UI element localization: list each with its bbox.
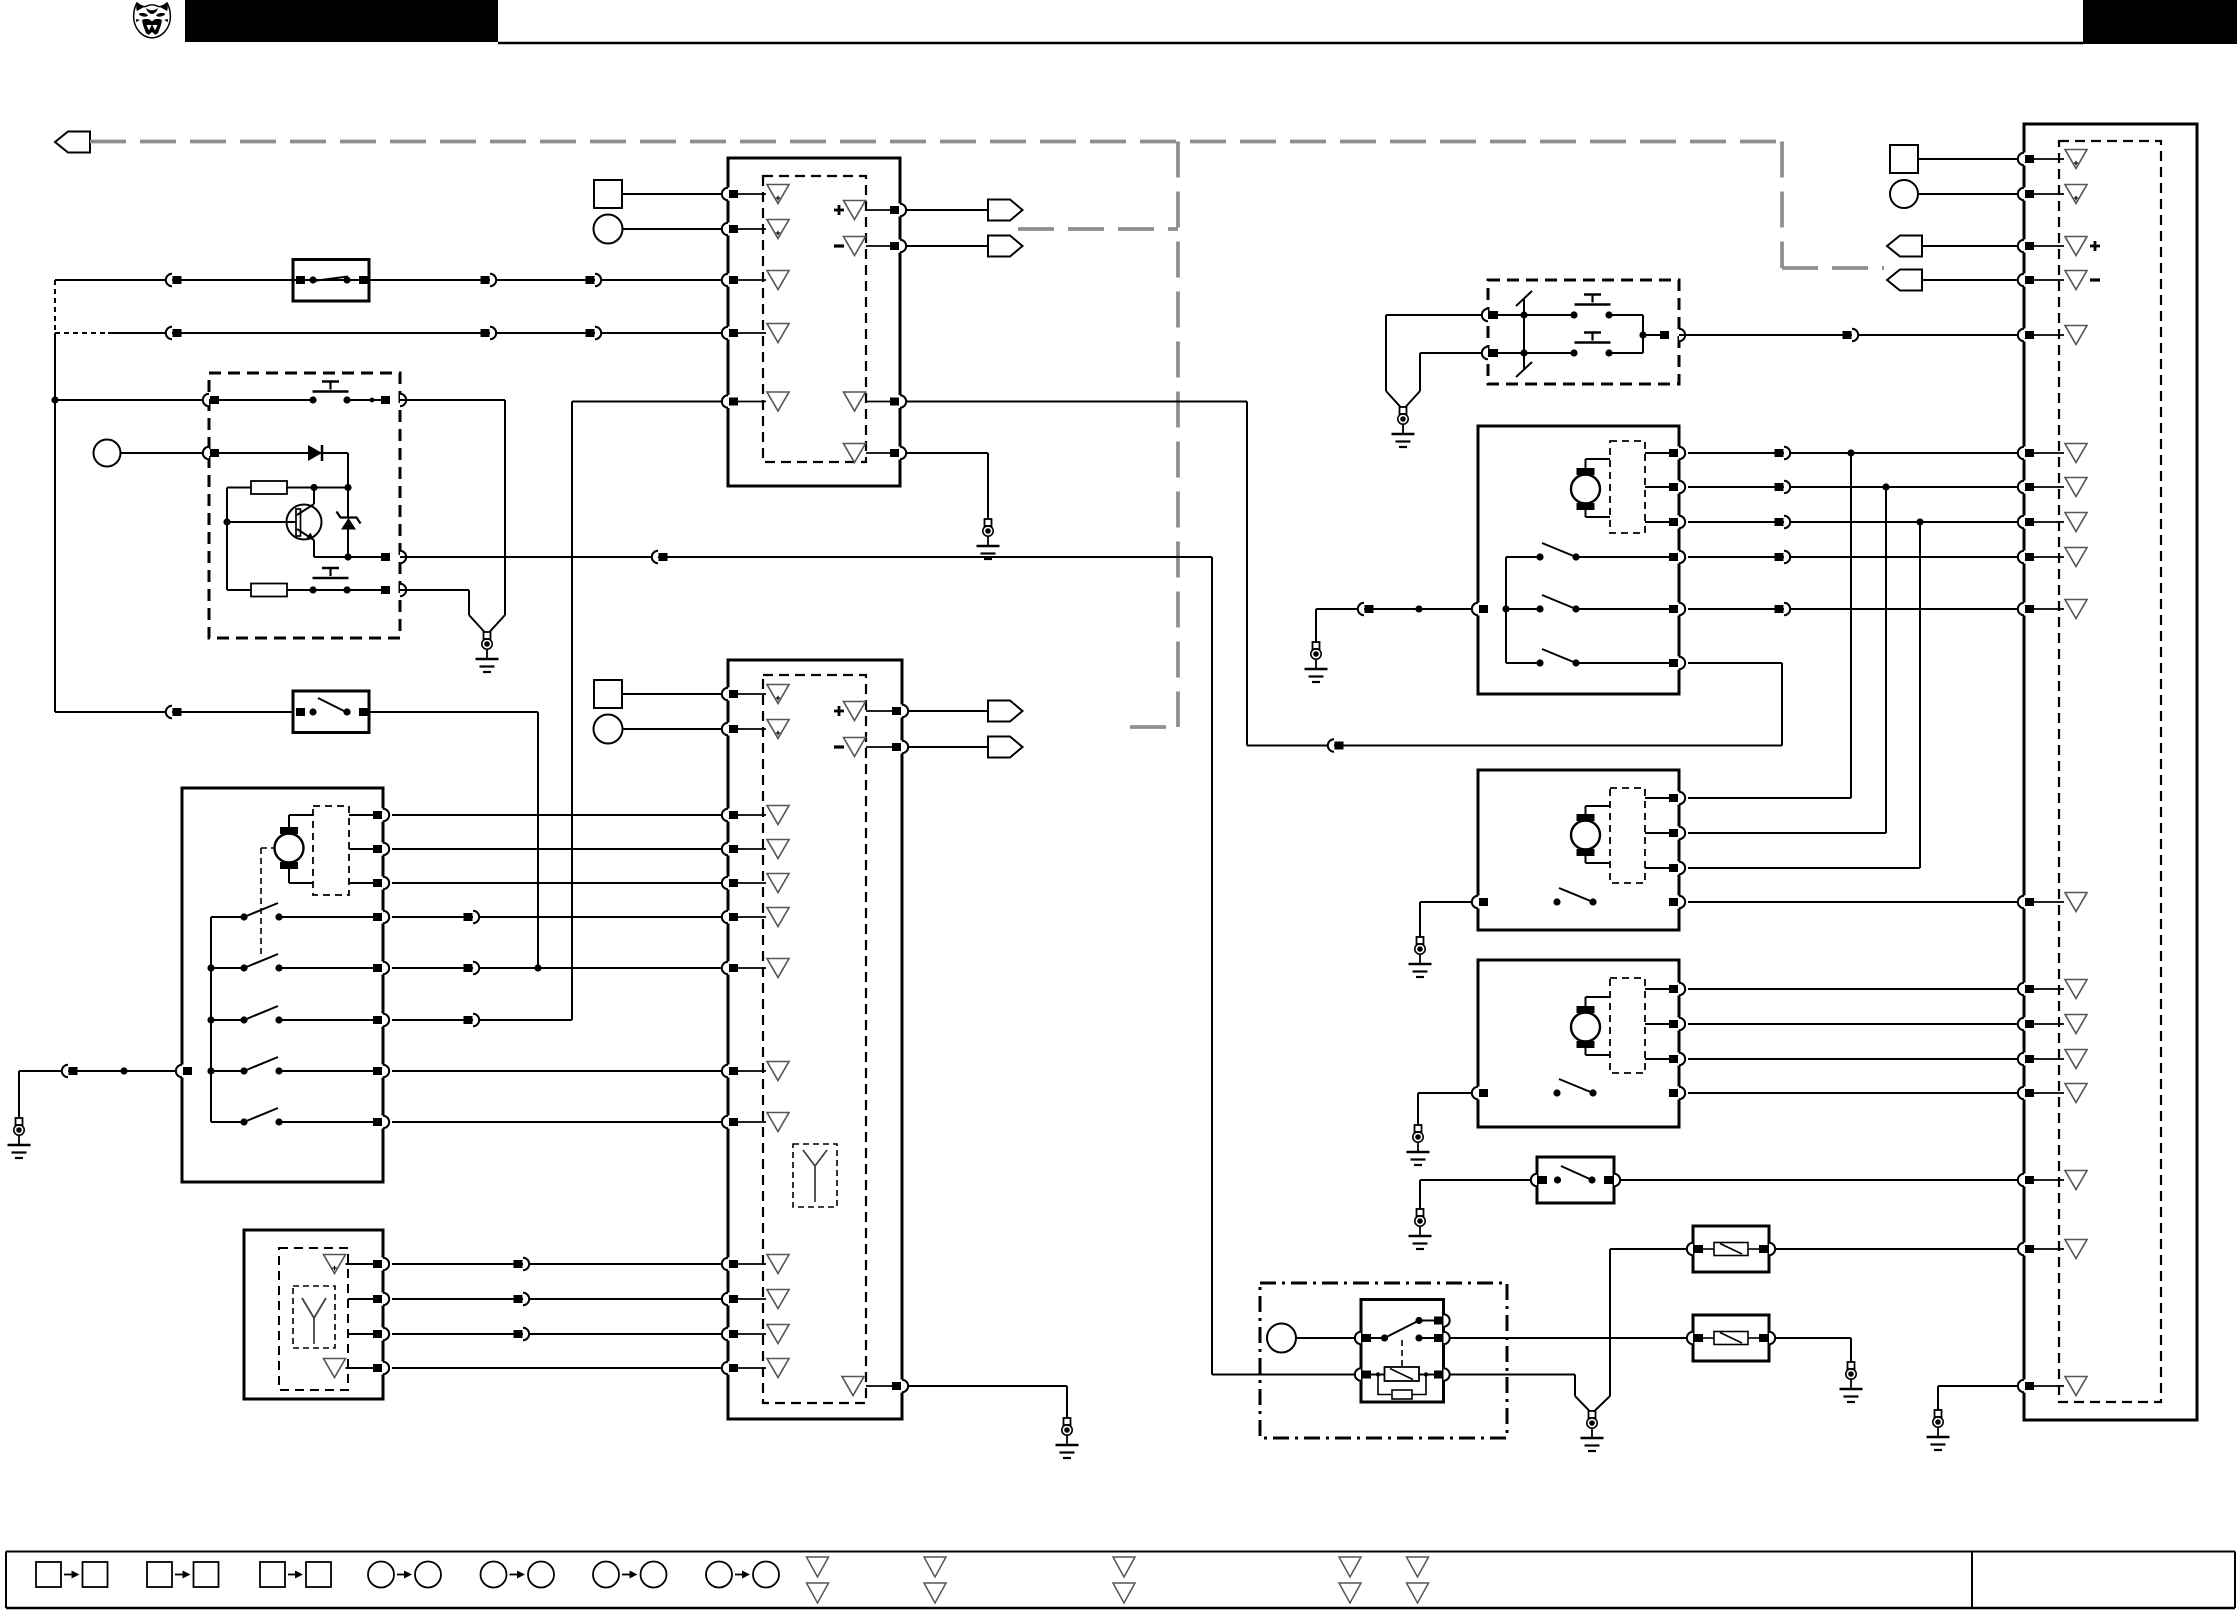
off-page arrow module2 - [988,737,1023,758]
latch unit right pin row 1020 [381,1014,386,1027]
receiver pin row 1334 [381,1328,386,1341]
passenger latch pin row 557 [1677,551,1682,564]
module1 right pin row 453 [898,447,903,460]
module2 left pin row 883 [726,877,731,890]
motor M-D wires [1585,997,1587,1006]
right module pin row 902 [2022,896,2027,909]
junction base rail [223,518,230,525]
inline connector unlock net [1328,739,1334,751]
module2 left pin row 815 [726,809,731,822]
pack left pin row 315 [1482,309,1488,321]
junction row 453 [1847,449,1854,456]
control module 2 box [728,660,902,1419]
module1 left pin row 229 [726,223,731,236]
rear latch2 pin row 1024 [1677,1018,1682,1031]
inline connector C2c [586,329,595,337]
mechanical link dashed [261,847,274,849]
off-page arrow module2 + [988,701,1023,722]
rear latch1 pin row 833 [1677,827,1682,840]
latch actuator dashed box B [1610,441,1645,533]
interior lamp dashdot box [1260,1283,1507,1438]
latch B switch bus [1505,557,1507,663]
wire row 280 (battery feed) [55,279,723,281]
inline connector C1c [586,276,595,284]
latch B ground wire [1316,608,1472,610]
actuator D stubs [1645,988,1670,990]
off-page arrow right + [1887,236,1922,257]
relay box R1 [1361,1300,1444,1403]
module1 - output triangle [844,237,866,256]
module1 right pin row 246 [898,240,903,253]
push button PB1 [313,390,349,393]
S2 contacts [296,708,305,716]
junction at (55,400) [51,396,58,403]
wire row 522 [1688,521,2018,523]
module1 + output triangle [844,201,866,220]
relay mech link [1401,1340,1403,1367]
legend triangle pair 4 [1339,1557,1361,1577]
latch unit right pin row 1071 [381,1065,386,1078]
relay feed riser x=1212 [1211,557,1213,1375]
receiver box [244,1230,383,1399]
transistor Q1 [287,505,322,540]
right module pin row 1093 [2022,1087,2027,1100]
rear latch2 pin row 1093 [1677,1087,1682,1100]
lamp2 right wire [1775,1337,1851,1339]
receiver pin row 1368 [381,1362,386,1375]
junction dots row 557 [344,553,351,560]
rear latch1 pin row 868 [1677,862,1682,875]
latch unit right pin row 968 [381,962,386,975]
key-in switch circle [94,440,121,467]
PBb contacts [1570,349,1577,356]
resistor R1 [251,481,287,494]
module2 left pin row 1071 [726,1065,731,1078]
left rail x=227 [226,488,228,591]
module1 ground wire [906,452,988,454]
junction gnd wire [120,1067,127,1074]
latch D switch [1553,1089,1560,1096]
right module pin row 522 [2022,516,2027,529]
off-page arrow (top left) [55,132,90,153]
ground G-F1 [484,632,491,639]
driver latch unit box [182,788,383,1182]
latch unit right pin row 849 [381,843,386,856]
pin out row 400 [381,396,390,404]
passenger latch box [1478,426,1679,694]
junction row 522 [1916,518,1923,525]
latch B switch row 663 [1506,662,1540,664]
module2 left triangles [767,685,789,704]
wire node row 487 [314,487,348,489]
module2 - output triangle [844,738,866,757]
wire row 453 [1688,452,2018,454]
module1 + output wire [906,209,988,211]
passenger latch pin row 663 [1677,657,1682,670]
right module pin row 557 [2022,551,2027,564]
legend top rule [6,1551,2235,1553]
wire row 1024 [1688,1023,2018,1025]
wire row 833 [1688,832,1886,834]
module2 ground wire [908,1385,1067,1387]
latch motor M-A [275,834,304,863]
luggage switch ground wire [1420,1179,1531,1181]
module1 - output wire [906,245,988,247]
right square input symbol [1890,145,1918,173]
ground G-MC [1417,937,1424,944]
ground G-LM [16,1118,23,1125]
latch motor M-B [1571,475,1600,504]
module2 left pin row 849 [726,843,731,856]
right module pin row 609 [2022,603,2027,616]
legend circle pair 1 [368,1562,394,1588]
lamp circle symbol [1267,1324,1296,1353]
PBa contacts [1570,311,1577,318]
lamp1 right wire [1775,1248,2018,1250]
rear latch2 left pin [1476,1087,1481,1100]
right module pin row 487 [2022,481,2027,494]
wire row 1071 [392,1070,723,1072]
inline connector row 917 [464,913,473,921]
module1 row401 wire to riser [572,401,723,403]
inline connector row 335 [1843,331,1852,339]
luggage switch pins [1531,1174,1537,1186]
pin into assembly row 453 [203,447,209,459]
wire key circle to assembly [121,452,210,454]
rear latch1 pin row 902 [1677,896,1682,909]
key cylinder assembly box [209,373,400,638]
module2 left pin row 1264 [726,1258,731,1271]
wire row 333 (dashed part) [55,332,108,334]
module2 + output triangle [844,702,866,721]
passenger latch left pin [1476,603,1481,616]
luggage switch box [1537,1157,1614,1203]
legend right edge [2234,1552,2236,1609]
relay coil [1385,1367,1420,1381]
module2 square input symbol [594,680,622,708]
off-page arrow right - [1887,270,1922,291]
module2 left pin row 968 [726,962,731,975]
inline connector row 1334 [514,1330,523,1338]
resistor R2 [251,584,287,597]
pin out row 590 [381,586,390,594]
module2 left pin row 729 [726,723,731,736]
header rule [498,42,2083,45]
pin out row 557 [381,553,390,561]
inline connector row 968 [464,964,473,972]
S2 output wire [369,711,538,713]
latch C ground wire [1420,901,1472,903]
inline connector row 1299 [514,1295,523,1303]
ground funnel F1 [469,615,485,632]
lamp2 left wire [1449,1337,1687,1339]
right module - [2090,278,2100,281]
receiver pin row 1264 [381,1258,386,1271]
latch B switch row 609 [1506,608,1540,610]
receiver pin row 1299 [381,1293,386,1306]
legend square pair 1 [36,1562,61,1587]
latch C switch [1553,898,1560,905]
inline connector latch B gnd [1358,603,1364,615]
receiver bottom triangle [324,1359,346,1378]
rear latch2 pin row 1059 [1677,1053,1682,1066]
module 2 inner dashed [763,675,866,1403]
Jaguar growler logo [134,3,171,38]
inline connector row 1020 [464,1016,473,1024]
module1 right pin row 210 [898,204,903,217]
legend triangle pair 1 [807,1557,829,1577]
relay right pin row 1338 [1434,1334,1443,1342]
latch unit right pin row 815 [381,809,386,822]
PB1 wire out [347,399,390,401]
left riser wire x=55 [54,280,56,333]
latch unit right pin row 917 [381,911,386,924]
off-page arrow module1 + [988,200,1023,221]
wire circle to relay [1296,1337,1355,1339]
motor M-C wires [1585,806,1587,814]
actuator B stubs [1645,452,1670,454]
module1 left pin row 280 [726,274,731,287]
legend circle pair 2 [481,1562,507,1588]
right module pin row 989 [2022,983,2027,996]
module2 left pin row 1368 [726,1362,731,1375]
wire row 1059 [1688,1058,2018,1060]
module2 right pin row 711 [900,705,905,718]
legend left edge [5,1552,7,1609]
relay switch box S1 [293,260,369,302]
inline connector row 522 [1775,518,1784,526]
module 1 inner dashed [763,176,866,462]
latch motor M-D [1571,1013,1600,1042]
relay box S2 [293,691,369,733]
right module pin row 246 [2022,240,2027,253]
module1 left pin row 194 [726,188,731,201]
module1 square input symbol [594,180,622,208]
module1 circle input symbol [594,215,623,244]
passenger latch pin row 453 [1677,447,1682,460]
wire row 557 to relay riser [400,556,1212,558]
wire row 849 [392,848,723,850]
motor M-B wires [1585,459,1587,468]
module1 right triangles low [844,392,866,411]
switch S1 contacts [296,276,305,284]
right circle input symbol [1890,180,1918,208]
legend circle pair 3 [593,1562,619,1588]
module2 right pin row 747 [900,741,905,754]
parallel riser B [1885,487,1887,833]
module2 + output wire [908,710,988,712]
node dots row 487 [310,484,317,491]
ground G-MD [1415,1125,1422,1132]
pin into assembly row 400 [203,394,209,406]
right module triangles [2065,150,2087,169]
receiver antenna [313,1318,315,1344]
wire row 1122 [392,1121,723,1123]
gray dashed bus B [1018,227,1178,231]
right module inner dashed [2059,141,2161,1402]
legend divider [1971,1552,1973,1609]
passenger latch pin row 609 [1677,603,1682,616]
latch switch row 1071 [211,1070,244,1072]
passenger latch pin row 487 [1677,481,1682,494]
wire row 798 [1688,797,1851,799]
luggage switch output wire [1620,1179,2018,1181]
module2 right pin row 1386 [900,1380,905,1393]
bus junctions [207,964,214,971]
pack ground wires [1386,314,1482,316]
receiver inner dashed [279,1248,348,1390]
junction latch B gnd [1415,605,1422,612]
wire pack to module [1679,334,2018,336]
relay coil resistor [1392,1390,1412,1399]
right module pin row 1059 [2022,1053,2027,1066]
right module pin row 1386 [2022,1380,2027,1393]
module2 left pin row 1122 [726,1116,731,1129]
module1 left pin row 401.5 [726,395,731,408]
parallel riser C [1919,522,1921,868]
latch B bus junction [1502,605,1509,612]
right module pin row 194 [2022,188,2027,201]
right module pin row 159 [2022,153,2027,166]
passenger latch pin row 522 [1677,516,1682,529]
ground G-M2 [1064,1418,1071,1425]
ground G-SW4 [1417,1209,1424,1216]
right module pin row 1024 [2022,1018,2027,1031]
inline connector C1a [166,274,172,286]
module1 right pin row 401.5 [898,395,903,408]
ground G-M1 [985,519,992,526]
right module pin row 280 [2022,274,2027,287]
gang dots [1520,311,1527,318]
latch switch row 968 [211,967,244,969]
rear latch 2 box [1478,960,1679,1127]
motor M-A wires [288,815,290,827]
latch actuator dashed box D [1610,978,1645,1073]
lamp box 2 [1693,1315,1769,1361]
module2 left pin row 917 [726,911,731,924]
wire row 989 [1688,988,2018,990]
rear latch1 left pin [1476,896,1481,909]
inline connector gnd wire [62,1065,68,1077]
relay right pin row 1320 [1434,1317,1443,1325]
module1 unlock output net [906,401,1247,403]
rear latch 1 box [1478,770,1679,930]
relay left pin row 1338 [1355,1332,1361,1344]
wire row 712 [55,711,293,713]
right module pin row 453 [2022,447,2027,460]
wire row 868 [1688,867,1920,869]
pack output pin [1660,331,1669,339]
latch unit right pin row 883 [381,877,386,890]
inline connector row 1264 [514,1260,523,1268]
zener diode Z1 [347,488,349,519]
right module pin row 335 [2022,329,2027,342]
pack output junction [1639,331,1646,338]
wire diode to node [322,452,348,454]
legend circle pair 4 [706,1562,732,1588]
module2 circle input symbol [594,715,623,744]
wire to ground funnel left [400,589,469,591]
wire to ground riser x=505 [400,399,505,401]
legend bottom rule [6,1607,2235,1610]
latch D ground wire [1418,1092,1472,1094]
wire row 968 [392,967,723,969]
actuator C stubs [1645,797,1670,799]
inline connector row 557 [652,551,658,563]
inline connector row 609 [1775,605,1784,613]
wire emitter to output [314,556,390,558]
right module pin row 1249 [2022,1243,2027,1256]
junction row 487 [1882,483,1889,490]
right module pin row 1180 [2022,1174,2027,1187]
inline connector C2b [481,329,490,337]
wire row 557 [1688,556,2018,558]
off-page arrow module1 - [988,236,1023,257]
rear latch2 pin row 989 [1677,983,1682,996]
relay left pin row 1374 [1355,1368,1361,1380]
wire to diode [219,452,308,454]
junction row 968 [534,964,541,971]
actuator stubs [349,814,374,816]
wire row 400 [55,399,313,401]
module2 antenna [814,1166,816,1202]
PB2 wire [313,589,390,591]
latch unit left pin row 1071 [180,1065,185,1078]
latch unit right pin row 1122 [381,1116,386,1129]
legend triangle pair 5 [1407,1557,1429,1577]
right module bottom ground wire [1938,1385,2018,1387]
pack wiring [1498,314,1574,316]
inline connector C1b [481,276,490,284]
relay switch [1371,1337,1385,1339]
ground G-RLY [1589,1411,1596,1418]
module2 antenna dashed box [793,1144,837,1207]
luggage switch contacts [1554,1176,1561,1183]
wire row 487 [1688,486,2018,488]
wire row 1264 [392,1263,723,1265]
switch S1 blade [313,277,348,282]
latch switch row 1122 [211,1121,244,1123]
wire row 902 [1688,901,2018,903]
relay out bottom wire [1449,1374,1575,1376]
wire row 1368 [392,1367,723,1369]
legend square pair 3 [260,1562,285,1587]
wire row 1299 [392,1298,723,1300]
parallel riser A [1850,453,1852,798]
latch actuator dashed box C [1610,788,1645,883]
title bar [185,0,498,42]
inline connector row 557b [1775,553,1784,561]
receiver stubs [346,1263,375,1265]
PB1 contacts [309,396,316,403]
wire row 1334 [392,1333,723,1335]
module2 left pin row 694 [726,688,731,701]
ground G-RM [1935,1410,1942,1417]
push button PBb [1575,341,1611,344]
inline connector row 453 [1775,449,1784,457]
gang link [1523,298,1525,370]
push button PB2 [313,577,349,580]
latch motor M-C [1571,821,1600,850]
receiver antenna dashed box [293,1286,335,1348]
legend triangle pair 3 [1113,1557,1135,1577]
latch B switch row 557 [1506,556,1540,558]
module2 bottom triangle [842,1377,864,1396]
module2 - output wire [908,746,988,748]
ground G-L2 [1848,1362,1855,1369]
wire row 883 [392,882,723,884]
wire row 333 [108,332,723,334]
